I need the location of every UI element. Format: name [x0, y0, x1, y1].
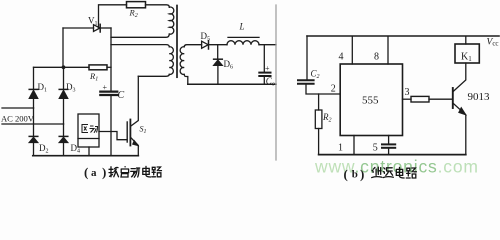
transistor S1 [126, 122, 128, 142]
transformer primary winding lower [169, 47, 173, 75]
drive box [78, 114, 99, 147]
svg-text:AC 200V: AC 200V [1, 114, 35, 124]
node V1 anode riser [62, 28, 64, 67]
diode D2 [29, 137, 37, 142]
transformer core [176, 6, 178, 78]
hanzi chi [383, 168, 393, 178]
pin 5 + capacitor C3 [388, 136, 390, 144]
wire D5 to L [209, 44, 228, 46]
svg-text:Vcc: Vcc [487, 38, 499, 48]
555 box [340, 64, 402, 136]
hanzi ruan [109, 167, 119, 177]
resistor R2b [318, 94, 320, 110]
svg-text:9013: 9013 [468, 91, 491, 103]
wire to R1 [64, 66, 90, 68]
wire L to divider [259, 44, 276, 46]
resistor R3 [411, 96, 429, 102]
wire V1 to node [100, 27, 111, 29]
pin 4 [351, 37, 353, 64]
capacitor C [100, 90, 117, 92]
caption a: (a) soft start circuit [84, 165, 106, 180]
wire winding2 bottom to collector [138, 74, 169, 76]
svg-text:8: 8 [374, 52, 379, 63]
transistor 9013 [452, 88, 454, 108]
AC line 1 [2, 107, 34, 109]
svg-text:4: 4 [339, 52, 344, 63]
wire secondary bottom lead [184, 74, 188, 84]
bottom rail a [33, 155, 139, 157]
bridge top rail [34, 66, 64, 68]
bridge column 2 [63, 67, 65, 89]
gate wire [99, 132, 127, 140]
diode D6 [214, 60, 223, 65]
hanzi yan [372, 167, 382, 177]
wire R1 to node [107, 66, 111, 68]
L overline [228, 36, 259, 38]
svg-text:1: 1 [338, 143, 343, 154]
hanzi dong2 [90, 126, 98, 133]
pin 1 [353, 136, 355, 155]
wire to diode V1 [63, 27, 94, 29]
wire C0 riser [263, 45, 265, 72]
hanzi dian2 [396, 167, 404, 178]
svg-text:5: 5 [373, 142, 378, 153]
AC line 2 [2, 123, 64, 125]
svg-text:a: a [91, 167, 97, 179]
svg-text:(: ( [344, 167, 348, 182]
svg-text:+: + [265, 64, 270, 73]
caption a hanzi: ruan qi dong dian lu [109, 166, 162, 177]
wire secondary top lead [184, 45, 201, 47]
wire D6 riser [217, 45, 219, 59]
wire top horizontal to R2 [99, 5, 127, 28]
svg-text:b: b [352, 169, 358, 181]
hanzi qu [82, 125, 89, 133]
bridge column 1 [33, 67, 35, 89]
svg-text:2: 2 [331, 84, 336, 95]
diode D5 [202, 41, 209, 48]
svg-text:555: 555 [362, 95, 379, 107]
svg-text:L: L [239, 22, 245, 32]
inductor L [227, 41, 259, 45]
divider line [275, 5, 277, 160]
wire winding2 top lead [111, 45, 169, 47]
hanzi lu [152, 167, 162, 177]
svg-text:+: + [103, 83, 108, 92]
bottom rail secondary [188, 83, 276, 85]
pin 3 wire [403, 98, 412, 100]
caption b: (b) delay circuit [344, 167, 365, 182]
hanzi lu2 [406, 168, 416, 178]
diode V1 [94, 25, 101, 32]
wire node column [110, 28, 112, 91]
svg-text:): ) [102, 165, 106, 180]
wire winding1 bottom lead [111, 34, 169, 37]
diode D1 [29, 90, 37, 98]
svg-text:(: ( [84, 165, 88, 180]
capacitor C2 [298, 79, 314, 81]
wire R2 to transformer top [146, 5, 170, 7]
transformer primary winding top [169, 7, 174, 34]
top rail b [307, 35, 499, 37]
pin 8 [387, 37, 389, 64]
diode D3 [59, 90, 67, 98]
svg-text:3: 3 [405, 87, 410, 98]
svg-text:C: C [118, 90, 125, 101]
hanzi dong [131, 168, 140, 177]
left rail b [306, 36, 308, 80]
hanzi dian [143, 166, 151, 177]
capacitor C0 [259, 72, 270, 74]
hanzi qi [121, 167, 129, 177]
transformer secondary winding [180, 47, 184, 75]
resistor R2 [127, 2, 146, 8]
relay K1 [465, 37, 467, 44]
drive box hanzi: qu dong [82, 125, 98, 133]
diode D4 [59, 137, 67, 142]
bottom rail b [319, 154, 466, 156]
resistor R1 [89, 65, 107, 70]
junction dot bridge [62, 65, 66, 69]
svg-text:): ) [360, 167, 364, 182]
